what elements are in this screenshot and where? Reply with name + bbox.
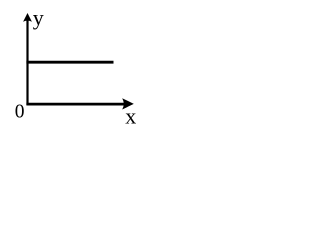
horizontal segment (graph line) [26, 61, 113, 64]
y-axis arrowhead [23, 13, 32, 22]
x-axis arrowhead [122, 98, 134, 109]
svg-text:y: y [33, 5, 44, 30]
x-axis [26, 103, 124, 106]
svg-text:x: x [125, 104, 136, 129]
y-axis [26, 19, 28, 105]
svg-text:0: 0 [15, 101, 25, 122]
